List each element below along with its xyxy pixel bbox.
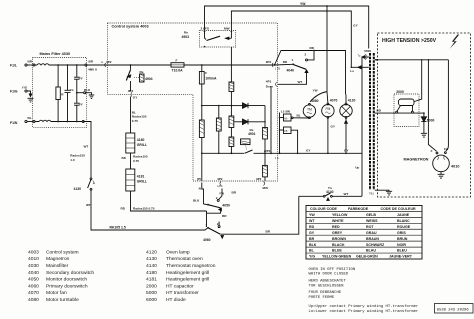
svg-text:SCHWARZ: SCHWARZ: [366, 243, 385, 247]
svg-text:ROT: ROT: [366, 225, 374, 229]
svg-text:HT transformer: HT transformer: [166, 290, 199, 296]
svg-text:Motor turntable: Motor turntable: [46, 297, 79, 303]
svg-text:4120: 4120: [146, 249, 157, 255]
HT capacitor body: [396, 99, 414, 113]
svg-text:YW: YW: [219, 191, 224, 195]
svg-text:BROWN: BROWN: [332, 237, 346, 241]
svg-text:4140: 4140: [146, 263, 157, 269]
wire: filament F drop: [428, 60, 436, 152]
wire: RD riser from 2P2: [275, 46, 346, 94]
svg-text:Primary doorswitch: Primary doorswitch: [46, 283, 88, 289]
svg-text:Radox155 0.75: Radox155 0.75: [133, 206, 155, 210]
svg-text:2: 2: [305, 52, 307, 56]
heating element 4180 grill: [126, 133, 147, 153]
junction dots filter: [57, 64, 78, 122]
svg-text:FOUR DEBRANCHE: FOUR DEBRANCHE: [309, 291, 342, 295]
wire: capacitor top feed: [415, 60, 422, 102]
svg-text:WEISS: WEISS: [366, 219, 378, 223]
svg-text:5000: 5000: [146, 290, 157, 296]
resistor R filter: [56, 65, 64, 122]
svg-text:6000: 6000: [146, 297, 157, 303]
svg-text:TM: TM: [307, 108, 312, 112]
control system 4003 dashed box: [107, 23, 277, 181]
svg-text:1.0: 1.0: [70, 158, 75, 162]
svg-text:WT: WT: [84, 144, 89, 148]
part number box 8538 243 20296: [435, 304, 474, 314]
svg-text:GRAU: GRAU: [366, 231, 377, 235]
svg-text:4080: 4080: [311, 99, 319, 103]
thermostat 4130 oven: [74, 178, 95, 191]
svg-text:WT: WT: [298, 80, 303, 84]
svg-text:Thermostat oven: Thermostat oven: [166, 256, 203, 262]
svg-text:Heatingelement grill: Heatingelement grill: [166, 270, 209, 276]
svg-text:WT: WT: [86, 203, 91, 207]
svg-text:Cy: Cy: [79, 102, 83, 106]
svg-text:BRUN: BRUN: [397, 237, 408, 241]
relay 4903 contact MW: [204, 27, 233, 48]
svg-text:BL: BL: [297, 114, 301, 118]
oven lamp 4120: [340, 95, 356, 119]
svg-text:CODE DE COULEUR: CODE DE COULEUR: [381, 207, 417, 211]
svg-text:BLK: BLK: [84, 88, 91, 92]
colour code table: [306, 206, 422, 260]
svg-text:4060: 4060: [203, 238, 211, 242]
svg-text:BLUE: BLUE: [332, 249, 342, 253]
svg-text:RED: RED: [332, 225, 340, 229]
svg-text:BK: BK: [122, 156, 127, 160]
svg-text:BR: BR: [89, 60, 94, 64]
diode 6000 HT: [421, 113, 435, 137]
svg-text:4030: 4030: [28, 263, 39, 269]
resistor column x265: [263, 106, 268, 155]
wire: BR from 4050 down: [207, 208, 228, 227]
node 4P1 Door connector: [266, 79, 277, 88]
svg-text:Cy: Cy: [79, 76, 83, 80]
svg-text:F: F: [431, 149, 433, 153]
svg-text:2P2: 2P2: [266, 60, 272, 64]
svg-text:4903: 4903: [182, 35, 190, 39]
svg-text:FM: FM: [325, 107, 330, 111]
inductor relay coil in control unit: [199, 120, 204, 181]
svg-text:BLK: BLK: [193, 199, 200, 203]
fuse F100mA: [199, 64, 217, 120]
svg-text:3P2: 3P2: [106, 60, 112, 64]
svg-text:Lo=Lower contact Primary windi: Lo=Lower contact Primary winding HT-tran…: [309, 309, 419, 314]
svg-text:GRIS: GRIS: [397, 231, 406, 235]
svg-text:F1/G: F1/G: [10, 90, 18, 94]
resistor column x231 middle: [229, 116, 234, 137]
svg-text:RD: RD: [283, 60, 288, 64]
wire: internal bus y105: [201, 105, 232, 107]
svg-text:FB: FB: [284, 130, 287, 133]
svg-text:Y/G: Y/G: [22, 85, 28, 89]
svg-text:F: F: [205, 71, 207, 75]
svg-text:Mainsfilter: Mainsfilter: [46, 263, 69, 269]
svg-text:RK105 1.5: RK105 1.5: [110, 225, 126, 229]
wire: Up riser to transformer: [355, 57, 369, 196]
svg-text:Up=Upper contact Primary windi: Up=Upper contact Primary winding HT-tran…: [309, 304, 419, 309]
relay Re4904 switch: [126, 64, 131, 91]
wire: secondary top to filament: [375, 59, 449, 61]
svg-text:Motor fan: Motor fan: [46, 290, 67, 296]
svg-text:4010: 4010: [28, 256, 39, 262]
wire: YW from LFS to motors and transformer tap: [205, 2, 369, 49]
svg-text:Oven lamp: Oven lamp: [166, 249, 190, 255]
svg-text:GREY: GREY: [332, 231, 343, 235]
magnetron 4010: [404, 147, 460, 172]
svg-text:4070: 4070: [330, 99, 338, 103]
svg-text:1 /L: 1 /L: [275, 156, 280, 160]
svg-text:4M5 U: 4M5 U: [88, 67, 98, 71]
svg-text:0.75: 0.75: [132, 119, 138, 123]
svg-text:Magnetron: Magnetron: [46, 256, 70, 262]
lamp ballast H-6 lower box: [279, 127, 299, 154]
svg-text:2000: 2000: [396, 90, 404, 94]
svg-text:Mains Filter 4030: Mains Filter 4030: [40, 52, 71, 56]
transformer 5000 core: [364, 49, 374, 190]
svg-text:JAUNE: JAUNE: [397, 213, 410, 217]
svg-text:5000: 5000: [364, 49, 371, 53]
svg-text:2: 2: [216, 196, 218, 200]
svg-text:2000: 2000: [146, 283, 157, 289]
relay Re4901 coil: [241, 128, 256, 151]
svg-text:Control system 4003: Control system 4003: [112, 24, 149, 28]
svg-text:BLEU: BLEU: [397, 249, 407, 253]
svg-text:YELLOW-GREEN: YELLOW-GREEN: [322, 255, 352, 259]
svg-text:HT capacitor: HT capacitor: [166, 283, 194, 289]
svg-text:Up: Up: [355, 166, 359, 170]
svg-text:Monitor doorswitch: Monitor doorswitch: [46, 277, 87, 283]
svg-text:BL: BL: [28, 116, 32, 120]
svg-text:4040: 4040: [28, 270, 39, 276]
svg-text:(P): (P): [197, 177, 201, 181]
svg-text:L: L: [102, 60, 104, 64]
svg-text:4130: 4130: [74, 187, 82, 191]
svg-text:4181: 4181: [146, 277, 157, 283]
svg-text:WHITH DOOR CLOSED: WHITH DOOR CLOSED: [309, 273, 349, 277]
svg-text:WT: WT: [309, 219, 315, 223]
svg-text:L1-5W: L1-5W: [281, 109, 290, 113]
svg-text:HERD ABGESCHATET: HERD ABGESCHATET: [309, 280, 347, 284]
svg-text:4904: 4904: [145, 77, 153, 81]
svg-text:4180: 4180: [137, 138, 145, 142]
capacitor Cy upper: [74, 65, 83, 93]
node F1/L mains live input: [10, 60, 33, 68]
diode D2: [234, 119, 265, 124]
lamp ballast H-6 upper box: [279, 109, 293, 153]
wire: door line down to 2P1: [264, 86, 272, 154]
svg-text:4180: 4180: [146, 270, 157, 276]
resistor column x218: [216, 105, 221, 154]
svg-text:JAUNE-VERT: JAUNE-VERT: [389, 255, 413, 259]
svg-text:F1/L: F1/L: [10, 64, 17, 68]
node 1/L junction on GY bus: [275, 152, 281, 159]
svg-text:RD: RD: [377, 109, 382, 113]
svg-text:BRAUN: BRAUN: [366, 237, 379, 241]
legend parts list: [28, 249, 216, 303]
svg-text:1: 1: [292, 58, 294, 62]
monitor doorswitch 4050: [204, 189, 237, 211]
svg-text:(2P1: (2P1: [264, 149, 271, 153]
svg-text:BLACK: BLACK: [332, 243, 345, 247]
svg-text:RD: RD: [310, 46, 315, 50]
node (P) connector and N wire: [193, 177, 204, 204]
resistor column x231 top: [229, 64, 234, 116]
node 3P1 connector M/S: [256, 177, 268, 190]
svg-text:GY: GY: [309, 231, 315, 235]
node Lo transformer contact: [350, 66, 369, 73]
wire: lamp return to GY bus: [345, 118, 348, 154]
node 4P2 L/FS connector bottom: [217, 177, 223, 188]
resistor column x265 lower: [263, 153, 268, 181]
svg-text:TB1: TB1: [369, 192, 374, 196]
svg-text:FARBKODE: FARBKODE: [348, 207, 369, 211]
svg-text:4080: 4080: [28, 297, 39, 303]
svg-text:BLAU: BLAU: [366, 249, 376, 253]
svg-text:1 TB: 1 TB: [275, 68, 281, 71]
svg-text:BR: BR: [222, 214, 227, 218]
wire: GY from MW to transformer Lo: [231, 11, 358, 67]
svg-text:4050: 4050: [222, 204, 230, 208]
wire: RD HV line: [375, 109, 425, 114]
svg-text:F: F: [176, 58, 178, 62]
svg-text:GRILL: GRILL: [137, 143, 147, 147]
svg-text:1: 1: [205, 223, 207, 227]
svg-text:BR: BR: [28, 60, 33, 64]
wire: BL from ballast to TM: [293, 114, 309, 118]
svg-text:YW: YW: [309, 213, 315, 217]
svg-text:3P1: 3P1: [256, 177, 262, 181]
svg-text:4P2: 4P2: [217, 177, 223, 181]
svg-text:BR: BR: [309, 237, 315, 241]
svg-text:2: 2: [217, 222, 219, 226]
svg-text:GELB-GRÜN: GELB-GRÜN: [356, 254, 378, 259]
relay 4903 contact LFS: [201, 27, 221, 41]
svg-text:WHITE: WHITE: [332, 219, 344, 223]
relay 4901 contact on GY bus: [201, 150, 271, 154]
svg-text:BLANC: BLANC: [397, 219, 410, 223]
fuse F T10.0A: [171, 58, 184, 72]
wire: MW contact down to L rail: [230, 47, 232, 65]
svg-text:BR: BR: [266, 230, 271, 234]
ground magnetron: [438, 172, 445, 178]
node F1/G protective earth input: [10, 85, 34, 102]
colour code table text: [309, 207, 416, 258]
svg-text:BR: BR: [232, 191, 237, 195]
svg-text:4003: 4003: [28, 249, 39, 255]
primary doorswitch 4060: [203, 222, 224, 243]
wire: WT from 4040 to Door connector: [278, 71, 307, 85]
relay Re4904 coil: [134, 70, 153, 82]
svg-text:4130: 4130: [146, 256, 157, 262]
svg-text:4P2: 4P2: [128, 89, 134, 93]
svg-text:COLOUR CODE: COLOUR CODE: [310, 207, 338, 211]
svg-text:4181: 4181: [137, 174, 145, 178]
svg-text:4040: 4040: [287, 69, 295, 73]
svg-text:6000: 6000: [427, 118, 435, 122]
svg-text:Door: Door: [266, 85, 274, 89]
svg-text:GELB: GELB: [366, 213, 376, 217]
svg-text:BLK: BLK: [309, 243, 317, 247]
relay Re4903 dashed box: [200, 31, 236, 48]
wire: BK Radox155 between grills: [122, 153, 148, 169]
wire: RD Radox155 grill return: [121, 191, 207, 211]
svg-text:0.75: 0.75: [133, 159, 139, 163]
HT capacitor 2000 dashed box: [394, 90, 419, 126]
node 2P2 connector right: [266, 60, 281, 71]
node BLK chassis tap: [77, 88, 94, 99]
svg-text:L/FS: L/FS: [217, 185, 223, 188]
diode D1: [231, 103, 265, 108]
svg-text:PORTE FERME: PORTE FERME: [309, 296, 335, 300]
svg-text:Y/G: Y/G: [309, 255, 315, 259]
svg-text:100mA: 100mA: [205, 76, 217, 80]
resistor column x231 bottom: [229, 137, 234, 154]
wire: WT to bottom rail: [86, 190, 205, 230]
svg-text:TUR GESCHLOSSEN: TUR GESCHLOSSEN: [309, 284, 345, 288]
wire: filter output to main L rail: [87, 60, 274, 72]
svg-text:4120: 4120: [348, 99, 356, 103]
notes oven off position: [309, 268, 419, 314]
svg-text:8538 243 20296: 8538 243 20296: [437, 308, 470, 312]
heating element 4181 grill: [126, 169, 147, 191]
node F1/N mains neutral input: [10, 116, 33, 125]
node 4P2 GY connector: [128, 89, 139, 100]
svg-text:Re: Re: [140, 70, 144, 74]
svg-text:MAGNETRON: MAGNETRON: [404, 158, 429, 162]
svg-text:Lo: Lo: [350, 69, 354, 73]
svg-text:WT: WT: [344, 192, 349, 196]
svg-text:4060: 4060: [28, 283, 39, 289]
wire: transformer bottom to ground TB1: [369, 190, 389, 195]
mains filter 4030 dashed box: [33, 58, 87, 128]
svg-text:RD: RD: [121, 206, 126, 210]
high tension dashed box: [378, 33, 471, 197]
svg-text:NOIR: NOIR: [397, 243, 406, 247]
lightning bolt symbol: [450, 35, 459, 49]
svg-text:4050: 4050: [28, 277, 39, 283]
svg-text:ROUGE: ROUGE: [397, 225, 411, 229]
inductor L1 filter top: [33, 64, 87, 66]
capacitor Cx: [65, 65, 74, 122]
svg-text:Cx: Cx: [70, 88, 74, 92]
svg-text:4010: 4010: [451, 164, 459, 168]
wire: BR bottom to WT line: [221, 196, 299, 234]
inductor L2 filter bottom: [33, 120, 84, 122]
svg-text:YW: YW: [313, 88, 318, 92]
svg-text:F1/N: F1/N: [10, 121, 18, 125]
svg-text:HT diode: HT diode: [166, 297, 186, 303]
svg-text:OVEN IN OFF POSITION: OVEN IN OFF POSITION: [309, 268, 356, 272]
motor 4080 turntable TM: [303, 99, 318, 119]
wire: FM return GY: [327, 118, 336, 154]
transformer primary tap contacts: [358, 54, 368, 60]
capacitor Cy lower: [74, 93, 83, 122]
svg-text:4140: 4140: [326, 190, 334, 194]
svg-text:M/S: M/S: [263, 186, 269, 190]
wire: BL Radox155 0.75 to grill: [131, 97, 147, 134]
svg-text:4P1: 4P1: [266, 79, 272, 83]
svg-text:YW: YW: [300, 2, 306, 6]
wire: filament FA drop: [446, 60, 449, 151]
motor 4070 fan FM: [322, 99, 338, 119]
svg-text:MW: MW: [224, 27, 230, 31]
svg-text:Control system: Control system: [46, 249, 79, 255]
ground transformer: [386, 191, 392, 195]
svg-text:GRILL: GRILL: [137, 179, 147, 183]
svg-text:HIGH TENSION >250V: HIGH TENSION >250V: [382, 38, 437, 44]
svg-text:Thermostat magnetron: Thermostat magnetron: [166, 263, 216, 269]
svg-text:4070: 4070: [28, 290, 39, 296]
wire: GY bus to transformer Up riser: [271, 149, 362, 154]
thermostat Tn 4140 magnetron: [299, 186, 362, 200]
svg-text:Heatingelement grill: Heatingelement grill: [166, 277, 209, 283]
svg-text:BL: BL: [309, 249, 315, 253]
svg-text:Secondary doorswitch: Secondary doorswitch: [46, 270, 94, 276]
doorswitch 4040 secondary: [275, 50, 315, 73]
svg-text:RD: RD: [309, 225, 315, 229]
svg-text:4901: 4901: [248, 132, 256, 136]
svg-text:YELLOW: YELLOW: [332, 213, 348, 217]
wire: YW feed to motors: [310, 6, 328, 103]
svg-text:T10.0A: T10.0A: [172, 68, 184, 72]
wire: WT neutral drop from filter: [70, 122, 91, 179]
